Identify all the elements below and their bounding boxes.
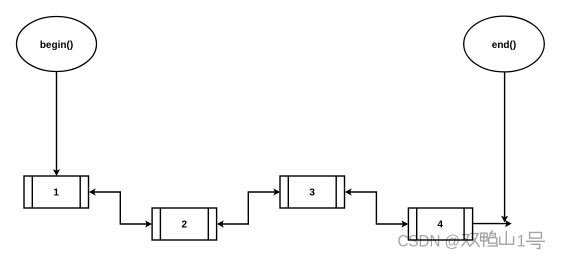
svg-text:CSDN @: CSDN @: [398, 232, 461, 250]
node 1: [24, 176, 89, 208]
wire node1-node2 double arrow: [89, 188, 152, 227]
node 3: [280, 176, 345, 208]
wire begin() to node 1 with arrowhead: [53, 72, 60, 177]
svg-text:2: 2: [182, 220, 188, 231]
node 2: [152, 208, 217, 240]
svg-text:end(): end(): [492, 40, 516, 51]
glyph shan: [500, 232, 514, 245]
svg-text:3: 3: [309, 188, 315, 199]
wire node4 right to sentinel with arrowhead: [473, 220, 512, 227]
svg-text:begin(): begin(): [40, 40, 73, 51]
svg-text:1: 1: [517, 232, 526, 250]
wire node2-node3 double arrow: [217, 188, 280, 227]
svg-text:1: 1: [53, 188, 59, 199]
watermark CSDN @双鸭山1号: [398, 231, 545, 250]
wire node3-node4 double arrow: [345, 188, 409, 227]
begin() ellipse: [17, 17, 97, 72]
wire end() down to sentinel with arrowhead: [501, 72, 508, 222]
svg-text:4: 4: [437, 220, 443, 231]
glyph hao: [526, 232, 544, 248]
node 4: [408, 208, 472, 240]
glyph ya: [481, 233, 488, 246]
end() ellipse: [464, 16, 545, 72]
glyph shuang: [462, 235, 469, 246]
